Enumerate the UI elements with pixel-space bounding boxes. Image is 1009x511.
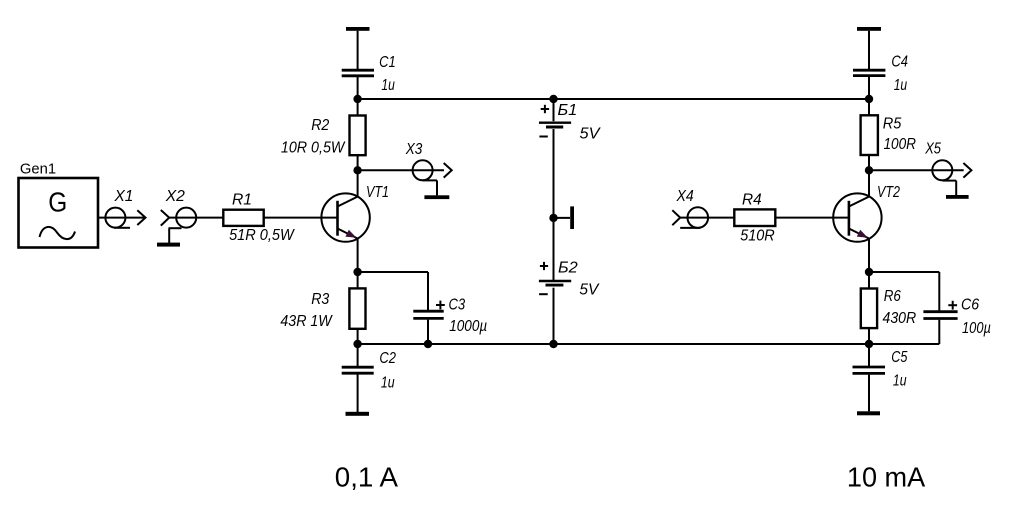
wire node to X3: [358, 169, 444, 171]
node B1/rail: [549, 95, 557, 103]
wire B1 to midpoint: [553, 129, 555, 218]
wire rail to battery B1: [553, 99, 555, 121]
resistor R4: [734, 192, 775, 245]
svg-text:C4: C4: [891, 53, 908, 70]
svg-text:G: G: [48, 186, 67, 217]
svg-text:1u: 1u: [381, 375, 395, 392]
svg-text:100R: 100R: [884, 136, 917, 153]
svg-text:100µ: 100µ: [962, 320, 991, 337]
resistor R6: [861, 288, 917, 328]
svg-text:R1: R1: [232, 191, 252, 208]
terminal bar above C1: [346, 27, 370, 31]
svg-text:Gen1: Gen1: [20, 161, 56, 178]
transistor VT1: [321, 184, 389, 242]
svg-text:X5: X5: [924, 141, 941, 158]
connector X2: [161, 188, 196, 243]
wire bar to C1: [357, 31, 359, 69]
svg-text:5V: 5V: [579, 282, 599, 299]
connector X1: [105, 188, 145, 228]
node battery midpoint: [549, 214, 557, 222]
wire VT2 emitter down: [868, 239, 870, 273]
svg-text:R6: R6: [884, 288, 901, 305]
capacitor C3: [413, 297, 487, 335]
wire VT1 collector up: [357, 170, 359, 196]
svg-text:C3: C3: [449, 297, 466, 314]
svg-text:1u: 1u: [893, 373, 907, 390]
svg-text:1000µ: 1000µ: [449, 318, 487, 335]
connector X4: [672, 188, 708, 228]
resistor R3: [280, 288, 365, 330]
node R2/VT1/X3: [353, 166, 361, 174]
node R3/C2/rail: [353, 340, 361, 348]
connector X5: [924, 141, 971, 196]
svg-text:C2: C2: [379, 350, 396, 367]
node R5/VT2/X5: [865, 166, 873, 174]
svg-text:10R 0,5W: 10R 0,5W: [281, 140, 346, 157]
wire R1 to VT1 base: [263, 217, 337, 219]
node C3/rail: [424, 340, 432, 348]
node R6/C5/rail: [865, 340, 873, 348]
svg-text:0,1 A: 0,1 A: [335, 461, 399, 492]
svg-text:510R: 510R: [740, 227, 775, 244]
terminal bar above C4: [857, 27, 881, 31]
svg-text:X4: X4: [676, 188, 694, 205]
generator Gen1: [19, 161, 99, 248]
svg-text:R5: R5: [883, 115, 902, 132]
transistor VT2: [833, 184, 900, 242]
resistor R5: [861, 115, 917, 155]
capacitor C2: [342, 344, 396, 412]
svg-text:X1: X1: [114, 188, 134, 205]
wire emitter node to R3: [357, 272, 359, 288]
resistor R1: [223, 191, 295, 244]
node C4/R5/rail: [865, 95, 873, 103]
wire C1 to node: [357, 77, 359, 116]
wire C6 branch down: [938, 272, 940, 311]
svg-text:C6: C6: [961, 297, 979, 314]
wire emitter node to C3 branch: [358, 271, 428, 273]
wire R4 to VT2 base: [775, 217, 849, 219]
svg-text:C1: C1: [379, 54, 396, 71]
wire R3 to bottom rail: [357, 329, 359, 344]
node B2/rail: [549, 340, 557, 348]
svg-text:430R: 430R: [883, 310, 917, 327]
svg-text:51R 0,5W: 51R 0,5W: [229, 227, 295, 244]
ground at X2: [157, 243, 180, 247]
node VT1 emitter: [353, 268, 361, 276]
svg-text:X2: X2: [165, 188, 185, 205]
svg-text:R4: R4: [742, 192, 762, 209]
wire X2 to R1: [169, 217, 223, 219]
svg-text:VT1: VT1: [366, 184, 389, 201]
wire emitter node to C6 branch: [869, 271, 939, 273]
wire B2 to bottom rail: [553, 288, 555, 344]
capacitor C4: [853, 53, 908, 94]
wire bar to C4: [868, 31, 870, 69]
wire VT1 emitter down: [357, 239, 359, 273]
terminal bar below C2: [346, 412, 370, 416]
svg-text:1u: 1u: [894, 77, 907, 94]
svg-text:Б1: Б1: [558, 102, 578, 119]
svg-text:1u: 1u: [381, 77, 394, 94]
node VT2 emitter: [865, 268, 873, 276]
svg-text:R3: R3: [311, 291, 329, 308]
ground at X5: [946, 195, 969, 199]
battery B1: [539, 102, 601, 143]
top supply rail: [358, 98, 869, 100]
svg-text:VT2: VT2: [877, 184, 900, 201]
svg-text:R2: R2: [311, 117, 329, 134]
battery B2: [539, 259, 600, 298]
wire X4 to R4: [680, 217, 735, 219]
wire C6 to bottom rail: [938, 320, 940, 344]
svg-text:5V: 5V: [580, 126, 601, 143]
terminal bar below C5: [857, 411, 880, 415]
wire C3 branch down: [427, 272, 429, 310]
midpoint terminal bar: [570, 206, 574, 229]
connector X3: [405, 141, 452, 195]
node C1/R2/rail: [353, 95, 361, 103]
capacitor C5: [853, 344, 908, 411]
svg-text:Б2: Б2: [558, 259, 578, 276]
wire C4 to node: [868, 77, 870, 115]
bottom rail: [358, 343, 940, 345]
resistor R2: [281, 116, 366, 157]
svg-text:C5: C5: [891, 349, 907, 366]
svg-text:43R 1W: 43R 1W: [280, 313, 333, 330]
midpoint tap stub: [554, 217, 571, 219]
wire R6 to bottom rail: [868, 328, 870, 344]
svg-text:X3: X3: [405, 141, 423, 158]
wire emitter node to R6: [868, 272, 870, 289]
wire Gen1 to X1: [98, 217, 145, 219]
wire R2 to collector node: [357, 155, 359, 170]
ground at X3: [424, 195, 449, 199]
wire VT2 collector up: [868, 170, 870, 196]
wire C3 to bottom rail: [427, 320, 429, 344]
svg-text:10 mA: 10 mA: [847, 462, 926, 493]
wire midpoint to B2: [553, 218, 555, 280]
wire R5 to collector node: [868, 155, 870, 170]
wire node to X5: [869, 169, 964, 171]
capacitor C6: [923, 297, 991, 337]
capacitor C1: [342, 54, 396, 94]
